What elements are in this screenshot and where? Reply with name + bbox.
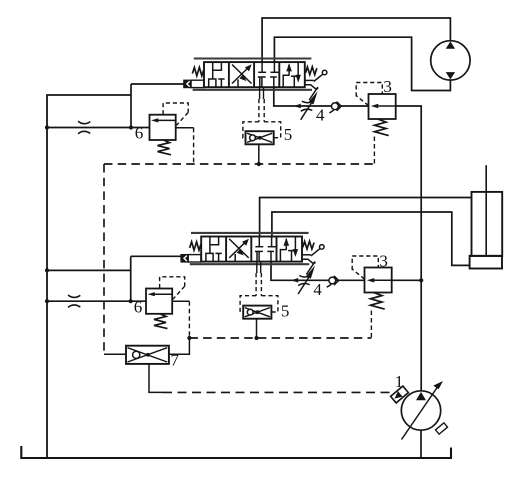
pilot tap B lower (valve to shuttle 5) bbox=[260, 262, 262, 273]
pilot drain valve 6 lower to LS bus lower bbox=[188, 301, 190, 338]
wire valve 3 upper to pump supply riser bbox=[396, 106, 422, 391]
wire lower supply step y=270.4 bbox=[47, 269, 131, 271]
pump outlet triangle bbox=[416, 392, 426, 400]
flow arrowhead on upper P line bbox=[294, 104, 301, 109]
node shuttle 5 lower output on LS bus lower bbox=[254, 336, 258, 340]
wire upper P line from valve to valve 3 bbox=[274, 87, 369, 106]
node junction lower orifice line at left vertical bbox=[45, 299, 49, 303]
wire B-port upper valve to motor bottom (inner loop) bbox=[274, 37, 450, 90]
svg-text:3: 3 bbox=[379, 252, 388, 271]
throttle valve 4 upper (variable) bbox=[301, 91, 318, 120]
wire bottom tank line bbox=[21, 446, 451, 458]
relief valve 3 upper spring bbox=[375, 119, 389, 136]
svg-text:7: 7 bbox=[171, 351, 180, 370]
valve upper spring left bbox=[192, 67, 203, 75]
valve upper pilot port block left bbox=[184, 80, 191, 87]
valve lower pilot port block left bbox=[181, 255, 188, 262]
node junction lower P riser at orifice line bbox=[129, 299, 133, 303]
valve lower spring right bbox=[303, 241, 314, 249]
wire pump suction to tank line bbox=[420, 430, 422, 457]
relief valve 6 upper outlet line bbox=[176, 127, 194, 129]
svg-text:5: 5 bbox=[281, 302, 290, 321]
check valve upper (ball and seat) bbox=[329, 102, 341, 113]
valve lower box4 parallel arrows bbox=[280, 250, 286, 262]
pilot tap A lower (valve to shuttle 5) bbox=[256, 262, 258, 273]
wire upper P supply riser x=131 bbox=[130, 84, 132, 128]
check valve lower (ball and seat) bbox=[327, 276, 339, 287]
wire A-port upper valve to motor top (outer loop) bbox=[262, 18, 450, 62]
pilot tap A upper (valve to shuttle 5) bbox=[259, 87, 261, 99]
relief valve 3 upper pilot loop bbox=[356, 83, 382, 106]
wire lower A-port to cylinder rod end bbox=[260, 198, 472, 237]
LS bus lower (dashed) bbox=[189, 337, 371, 339]
check valve 7 bbox=[104, 338, 189, 392]
pump drain stub right bbox=[435, 423, 447, 434]
cylinder (vertical, rod up) bbox=[470, 165, 503, 268]
svg-text:4: 4 bbox=[313, 280, 322, 299]
LS bus upper (dashed) bbox=[104, 163, 374, 165]
pump 1 (variable displacement) bbox=[391, 381, 448, 440]
relief valve 6 upper pilot loop bbox=[163, 103, 188, 125]
node junction pump supply at valve 3 lower outlet bbox=[419, 278, 423, 282]
pilot drain valve 3 lower to LS bus lower bbox=[370, 311, 372, 339]
wire upper valve left port line bbox=[131, 83, 184, 85]
svg-text:6: 6 bbox=[135, 124, 144, 143]
pump variable arrow bbox=[402, 386, 439, 440]
relief valve 6 upper spring bbox=[158, 140, 172, 155]
wire tank/return left vertical bbox=[47, 95, 131, 458]
relief valve 6 lower spring bbox=[154, 314, 168, 329]
node check valve 7 riser on LS bus lower bbox=[187, 336, 191, 340]
pilot drop to check valve 7 bbox=[103, 164, 105, 354]
svg-text:3: 3 bbox=[383, 77, 392, 96]
pump control actuator (angled box) bbox=[391, 386, 409, 403]
hydraulic motor top right bbox=[431, 41, 470, 80]
node junction upper P riser at orifice line bbox=[129, 125, 133, 129]
throttle valve 4 lower (variable) bbox=[298, 266, 315, 295]
valve upper box1 internals bbox=[212, 62, 214, 79]
shuttle valve 5 lower output line bbox=[256, 319, 258, 338]
wire lower P supply riser x=130.7 bbox=[130, 256, 132, 301]
relief valve 3 upper bbox=[356, 83, 396, 136]
directional control valve lower (4-position, lever + springs) bbox=[181, 233, 324, 275]
valve upper body bbox=[204, 62, 305, 87]
check valve 7 output to pump control bbox=[149, 364, 163, 393]
relief valve 6 lower outlet line bbox=[172, 300, 189, 302]
cylinder piston rod bbox=[485, 165, 487, 256]
valve lower lever bbox=[302, 254, 311, 256]
valve lower box2 crossed arrows bbox=[229, 241, 247, 258]
relief valve 6 upper bbox=[150, 103, 194, 155]
svg-text:5: 5 bbox=[284, 125, 293, 144]
relief valve 3 lower pilot loop bbox=[352, 256, 378, 279]
svg-text:1: 1 bbox=[395, 372, 404, 391]
valve lower spring left bbox=[190, 242, 201, 250]
relief valve 3 lower bbox=[352, 256, 392, 309]
valve upper lever bbox=[305, 79, 314, 81]
relief valve 6 lower pilot loop bbox=[160, 277, 185, 299]
node shuttle 5 upper output on LS bus bbox=[257, 162, 261, 166]
fixed orifice upper (on y=127.5 line) bbox=[78, 121, 90, 133]
check valve 7 left port line bbox=[104, 353, 126, 355]
flow arrowhead on lower P line bbox=[291, 278, 298, 283]
pilot drain valve 3 upper to LS bus bbox=[373, 137, 375, 165]
valve upper box3 blocked ports bbox=[261, 62, 263, 72]
wire valve 3 lower outlet to pump riser bbox=[392, 279, 421, 281]
valve lower body bbox=[201, 237, 302, 262]
node junction upper orifice line at left vertical bbox=[45, 125, 49, 129]
directional control valve upper (4-position, lever + springs) bbox=[184, 59, 327, 101]
svg-text:6: 6 bbox=[134, 298, 143, 317]
relief valve 3 lower spring bbox=[371, 293, 385, 310]
relief valve 6 lower bbox=[146, 277, 189, 329]
shuttle valve 5 upper bbox=[246, 131, 274, 164]
valve lower box3 blocked ports bbox=[258, 237, 260, 247]
pilot tap B upper (valve to shuttle 5) bbox=[263, 87, 265, 99]
valve upper spring right bbox=[306, 67, 317, 75]
wire lower orifice line y=301.2 bbox=[47, 300, 146, 302]
pilot drain valve 6 upper to LS bus bbox=[193, 128, 195, 164]
valve upper mounting rail bottom bbox=[193, 89, 312, 91]
wire lower B-port to cylinder cap end bbox=[272, 212, 470, 265]
pilot line network (dashed) bbox=[104, 87, 390, 392]
node junction lower step line at left vertical bbox=[45, 268, 49, 272]
valve upper box4 parallel arrows bbox=[283, 75, 289, 87]
shuttle valve 5 lower bbox=[243, 306, 271, 338]
wire upper orifice line y=127.5 bbox=[47, 127, 150, 129]
fixed orifice lower (on y=301.2 line) bbox=[68, 295, 80, 307]
valve lower box1 internals bbox=[209, 237, 211, 254]
valve lower mounting rail top bbox=[191, 232, 309, 234]
pilot line to pump displacement control bbox=[163, 391, 390, 393]
wire lower P line from valve to valve 3 lower bbox=[271, 262, 365, 281]
valve upper mounting rail top bbox=[194, 57, 312, 59]
valve upper box2 crossed arrows bbox=[232, 66, 250, 83]
valve lower mounting rail bottom bbox=[190, 263, 309, 265]
shuttle valve 5 upper output line bbox=[258, 144, 260, 164]
wire lower valve left port line bbox=[131, 255, 183, 257]
svg-text:4: 4 bbox=[316, 106, 325, 125]
check valve 7 right port line bbox=[169, 338, 190, 354]
